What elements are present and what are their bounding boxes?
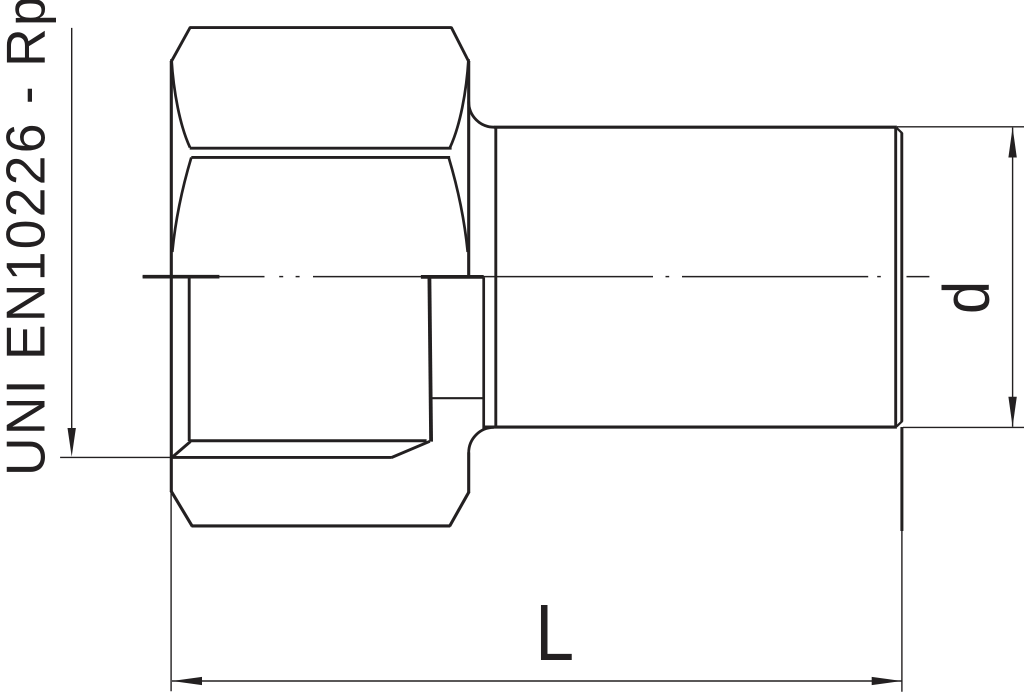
fillet hex to pipe bottom [469,427,494,452]
L dimension arrowhead right [872,677,902,685]
svg-text:L: L [535,588,574,678]
pipe end outer face [894,127,897,427]
d extension line top [897,126,1024,128]
svg-text:UNI EN10226 - Rp: UNI EN10226 - Rp [0,0,57,476]
socket bore line [188,277,191,441]
collar inner line lower [482,277,485,429]
hex top-left chamfer [171,27,191,62]
bore shoulder line [431,397,484,399]
left extension line lower [170,492,172,691]
hex face arc lower-left [172,158,191,253]
bore edge thick segment right [421,275,484,279]
pipe bottom edge [485,426,897,429]
socket mouth chamfer [172,442,191,458]
collar line [494,127,497,426]
centerline [143,276,930,278]
thread crest line [189,439,426,442]
hex face arc upper-left [172,59,191,148]
thread dimension arrowhead [68,428,76,457]
hex right edge upper [467,62,470,278]
fillet hex to pipe top [469,102,495,128]
pipe end chamfer top [897,128,903,134]
hex chamfer line upper [190,147,452,150]
socket end line [429,277,431,442]
d dimension arrowhead top [1008,127,1016,157]
d extension line bottom [903,426,1024,428]
hex face arc upper-right [450,59,469,148]
hex top face [190,26,452,29]
bore edge thick segment left [143,275,220,279]
L dimension line [172,680,902,682]
d dimension line [1012,128,1014,427]
hex chamfer line lower [191,156,450,159]
hex top-right chamfer [451,27,469,62]
right extension line thick part [900,427,903,531]
socket face extension line [60,456,171,458]
pipe end chamfer bottom [897,421,903,427]
d dimension arrowhead bottom [1008,397,1016,427]
hex face arc lower-right [449,158,468,253]
svg-text:d: d [931,281,1003,314]
hex left edge [170,62,173,492]
hex bottom-left chamfer [171,491,192,527]
thread runout slant [392,441,430,457]
pipe top edge [494,126,897,129]
hex bottom face [192,524,451,527]
hex bottom-right chamfer [450,492,470,527]
L dimension arrowhead left [172,677,202,685]
right extension line thin part [901,531,903,692]
pipe end inner line [900,133,903,422]
socket face line [171,456,391,459]
thread dimension line [71,28,73,432]
hex right edge lower [467,453,470,493]
